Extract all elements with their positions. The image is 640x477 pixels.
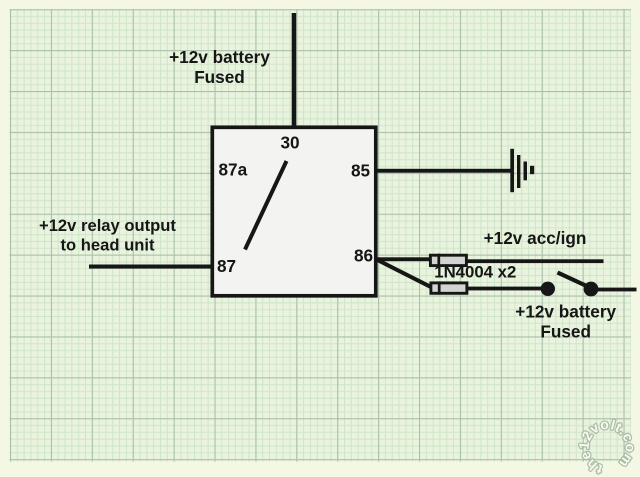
svg-text:87a: 87a: [219, 160, 248, 180]
wire: diode D1 to acc/ign source: [468, 259, 604, 263]
label: +12v relay output to head unit: [39, 216, 176, 255]
svg-text:1N4004 x2: 1N4004 x2: [434, 263, 516, 282]
wire: pin 86 to diode D2 (diagonal): [377, 260, 431, 287]
diode D2 (1N4004): [431, 281, 467, 294]
label: +12v battery Fused (bottom): [515, 302, 616, 342]
wire: switch to +12v battery (right edge): [597, 288, 637, 292]
svg-text:+12v acc/ign: +12v acc/ign: [484, 228, 587, 248]
ground symbol (chassis ground, pointing right): [510, 149, 534, 192]
svg-text:86: 86: [354, 246, 373, 266]
diode D1 (1N4004): [430, 254, 466, 267]
svg-text:30: 30: [280, 133, 299, 153]
svg-text:Fused: Fused: [194, 67, 245, 87]
wire: +12v battery feed to relay pin 30 (vertical): [292, 13, 297, 129]
svg-text:to head unit: to head unit: [60, 236, 154, 255]
switch S1 lever: [558, 273, 593, 289]
svg-text:+12v battery: +12v battery: [515, 302, 616, 322]
switch S1 contact (right): [584, 282, 599, 297]
relay K1 body: [212, 127, 375, 295]
label: +12v battery Fused (top): [169, 47, 270, 87]
wire: pin 86 to diode D1 (horizontal): [376, 257, 430, 261]
svg-text:+12v battery: +12v battery: [169, 47, 270, 67]
svg-text:+12v relay output: +12v relay output: [39, 216, 176, 235]
wire: pin 85 to ground: [376, 169, 513, 173]
watermark: the12volt.com ring: [576, 417, 637, 477]
wire: pin 87 relay output (horizontal): [89, 265, 213, 269]
relay armature (common 30 to 87a): [245, 161, 287, 250]
svg-text:87: 87: [217, 256, 236, 276]
svg-text:Fused: Fused: [540, 322, 591, 342]
wire: diode D2 to switch: [468, 287, 541, 291]
switch S1 contact (left): [541, 282, 555, 296]
svg-text:85: 85: [351, 161, 371, 181]
